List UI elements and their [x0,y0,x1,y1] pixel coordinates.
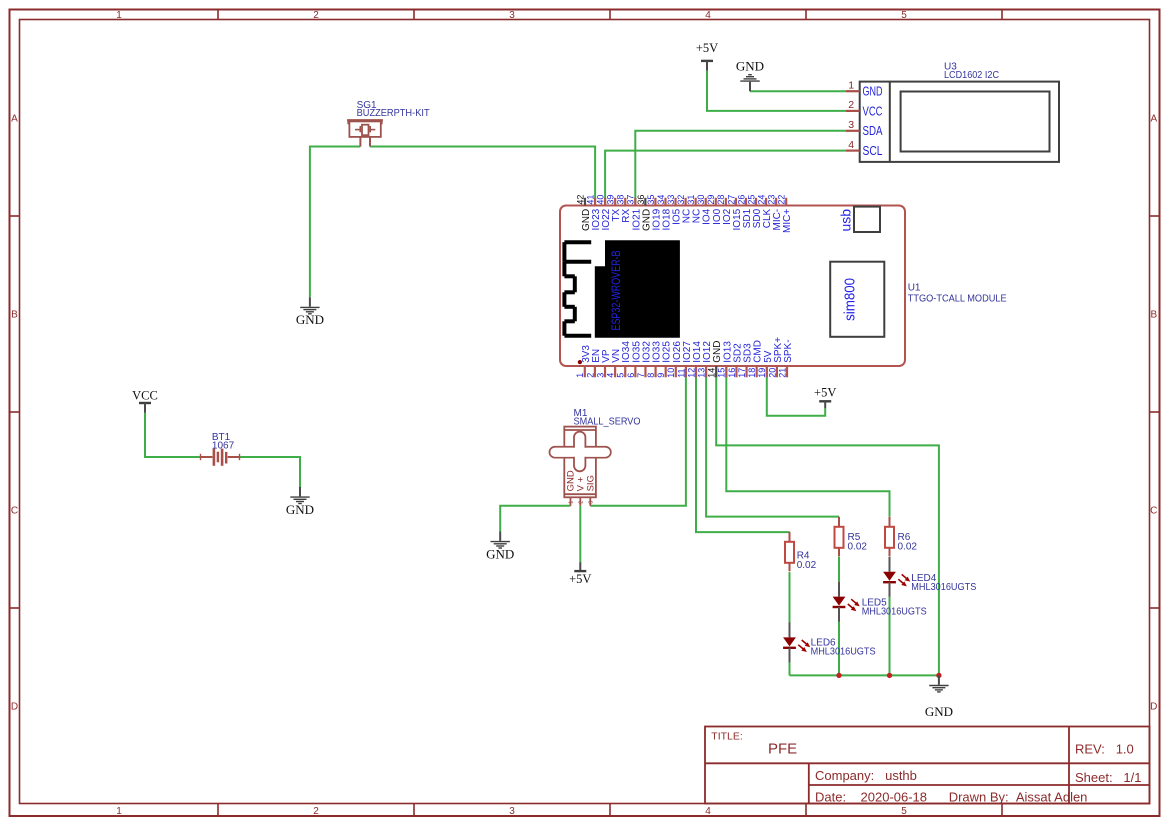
svg-text:REV: 1.0: REV: 1.0 [1075,742,1134,757]
wire LCD SCL pin4 to U1 pin40 IO22 [605,151,846,206]
buzzer SG1 [347,120,383,146]
battery BT1 [200,449,240,466]
svg-text:30: 30 [696,195,706,205]
U1 module outline [560,206,905,367]
svg-text:VCC: VCC [863,104,883,118]
svg-text:7: 7 [636,373,646,378]
U1 pin 1 3V3 [575,345,592,378]
wire U1 pin15 IO13 to resistor R6 [726,366,889,517]
svg-text:1: 1 [569,501,575,504]
servo M1 [550,427,611,506]
svg-text:VCC: VCC [132,389,158,403]
svg-text:D: D [1150,702,1157,713]
svg-text:13: 13 [697,368,707,378]
svg-text:+5V: +5V [696,41,718,55]
LED4 MHL3016UGTS [883,557,976,597]
svg-text:TITLE:: TITLE: [711,730,743,742]
svg-text:1: 1 [116,806,122,817]
svg-text:38: 38 [616,195,626,205]
label U1 TTGO-TCALL MODULE [908,283,1007,305]
U1 pin 26 SD1 [736,195,753,229]
wire U1 pin12 IO14 to resistor R4 [696,366,790,532]
label BT1 1067 [212,432,235,452]
svg-text:2: 2 [313,806,319,817]
svg-text:28: 28 [716,195,726,205]
resistor R4 0.02 [785,532,817,572]
U1 pin 31 NC [686,195,703,224]
svg-text:3: 3 [595,373,605,378]
U1 pin 8 IO33 [646,341,663,378]
ground GND (top, to LCD pin1) [736,59,764,92]
svg-text:10: 10 [666,368,676,378]
LCD pin 1 GND [846,79,883,98]
U1 pin 18 CMD [747,340,764,378]
junction dot LED4 bus [887,673,892,678]
wire LED6 to GND bus [789,662,791,675]
LCD pin 4 SCL [846,139,883,158]
U1 pin 23 MIC- [767,195,784,231]
svg-text:42: 42 [575,195,585,205]
svg-text:MHL3016UGTS: MHL3016UGTS [862,607,927,618]
U1 pin 12 IO14 [686,341,703,378]
U1 pin 28 IO2 [716,195,733,225]
U1 pin 40 IO22 [596,195,613,231]
svg-text:12: 12 [686,368,696,378]
U1 pin 15 IO13 [717,341,734,378]
svg-text:14: 14 [707,368,717,378]
U1 pin 38 RX [616,195,633,223]
wire LED4 to GND bus [889,597,891,676]
svg-text:26: 26 [736,195,746,205]
svg-text:5: 5 [901,806,907,817]
svg-text:SIG: SIG [585,475,596,491]
U1 ESP32-WROVER-B chip [595,240,680,338]
svg-text:3: 3 [509,806,515,817]
U1 pin 9 IO25 [656,341,673,378]
U1 pin 36 GND [636,195,653,231]
svg-text:11: 11 [676,368,686,377]
svg-text:GND: GND [863,85,883,99]
label SG1 BUZZERPTH-KIT [357,100,430,119]
svg-text:+5V: +5V [569,572,591,586]
svg-text:3: 3 [848,119,854,131]
svg-text:17: 17 [737,368,747,378]
svg-text:9: 9 [656,373,666,378]
U1 pin 21 SPK- [777,339,794,377]
power VCC (battery) [132,389,158,413]
svg-text:35: 35 [646,195,656,205]
svg-text:PFE: PFE [768,741,797,758]
title block frame [705,727,1150,804]
U1 pin 39 TX [606,195,623,222]
svg-text:18: 18 [747,368,757,378]
U1 usb connector [838,207,881,232]
svg-text:6: 6 [626,373,636,378]
svg-text:BUZZERPTH-KIT: BUZZERPTH-KIT [357,108,430,119]
wire servo V+ pin to +5V [579,506,581,562]
U1 pin 20 SPK+ [767,337,784,378]
svg-text:39: 39 [606,195,616,205]
label U3 LCD1602 I2C [944,61,999,81]
svg-text:MIC+: MIC+ [782,209,793,233]
U1 pin 42 GND [575,195,592,231]
svg-text:MHL3016UGTS: MHL3016UGTS [911,582,976,593]
svg-text:37: 37 [626,195,636,205]
resistor R5 0.02 [835,517,868,557]
wire buzzer left pin to GND [310,147,361,298]
U1 pin 27 IO15 [726,195,743,231]
svg-text:GND: GND [736,59,764,74]
ground GND (buzzer) [296,297,324,327]
svg-text:A: A [11,114,18,125]
U1 pin 37 IO21 [626,195,643,231]
svg-text:C: C [11,506,18,517]
wire U1 pin13 IO12 to resistor R5 [706,366,839,517]
svg-text:GND: GND [296,312,324,327]
wire servo GND pin to GND [500,506,570,532]
svg-text:2: 2 [848,99,854,111]
svg-text:32: 32 [676,195,686,205]
svg-text:0.02: 0.02 [848,541,868,552]
U1 pin 29 IO0 [706,195,723,225]
U1 pin 33 IO5 [666,195,683,225]
wire U1 pin11 IO27 to servo SIG [590,366,686,506]
svg-text:1: 1 [116,10,122,21]
svg-text:A: A [1150,114,1157,125]
svg-text:1: 1 [848,79,854,91]
power +5V (U1 pin19) [814,386,836,409]
svg-text:8: 8 [646,373,656,378]
svg-text:1: 1 [575,373,585,378]
svg-text:sim800: sim800 [842,278,859,321]
LCD module U3 body [860,82,1059,162]
svg-text:+5V: +5V [814,386,836,400]
ground GND (battery minus) [286,487,314,517]
wire U1 pin19 5V to +5V [767,366,825,416]
wire GND to LCD pin1 [750,90,846,92]
U1 pin 11 IO27 [676,341,693,378]
svg-text:0.02: 0.02 [797,560,817,571]
U1 pin 19 5V [757,350,774,378]
wire VCC to battery BT1 plus [145,413,200,457]
U1 pin 17 SD3 [737,343,754,378]
svg-text:GND: GND [925,704,953,719]
svg-text:2: 2 [578,501,584,504]
svg-text:23: 23 [767,195,777,205]
U1 pin 25 SD0 [746,195,763,229]
svg-text:33: 33 [666,195,676,205]
svg-text:15: 15 [717,368,727,378]
LED5 MHL3016UGTS [833,582,927,622]
svg-text:GND: GND [286,502,314,517]
svg-text:41: 41 [585,195,595,205]
svg-text:TTGO-TCALL MODULE: TTGO-TCALL MODULE [908,293,1007,304]
svg-text:2: 2 [585,373,595,378]
junction dot GND bus corner [936,673,941,678]
label M1 SMALL_SERVO [574,408,641,428]
svg-text:31: 31 [686,195,696,205]
svg-text:36: 36 [636,195,646,205]
svg-text:19: 19 [757,368,767,378]
U1 pin 7 IO32 [636,341,653,378]
U1 pin 13 IO12 [697,341,714,378]
U1 pin 4 VN [606,349,623,378]
svg-text:SCL: SCL [863,144,883,158]
LED6 MHL3016UGTS [783,622,876,662]
U1 pin 41 IO23 [585,195,602,231]
svg-text:25: 25 [746,195,756,205]
svg-text:usb: usb [838,209,854,232]
wire buzzer right pin to U1 pin41 IO23 [370,147,595,206]
wire U1 pin14 GND to bottom GND bus [716,366,939,675]
wire battery BT1 minus to GND [240,457,300,487]
svg-text:MHL3016UGTS: MHL3016UGTS [811,647,876,658]
U1 pin 34 IO18 [656,195,673,231]
svg-text:Sheet: 1/1: Sheet: 1/1 [1075,770,1142,785]
svg-text:20: 20 [767,368,777,378]
svg-text:D: D [11,702,18,713]
wire LED5 to GND bus [838,621,840,675]
wire LCD SDA pin3 to U1 pin37 IO21 [635,131,846,206]
wire +5V to LCD VCC pin2 [707,71,846,111]
wire R5 to LED5 [838,557,840,582]
U1 pin 6 IO35 [626,341,643,378]
svg-text:16: 16 [727,368,737,378]
U1 pin 10 IO26 [666,341,683,378]
svg-text:3: 3 [588,501,594,504]
U1 pin 14 GND [707,341,724,378]
svg-text:ESP32-WROVER-B: ESP32-WROVER-B [609,251,623,331]
svg-text:24: 24 [756,195,766,205]
svg-text:5: 5 [616,373,626,378]
wire R4 to LED6 [789,572,791,623]
U1 pin 22 MIC+ [777,195,794,233]
title block text [711,730,1141,804]
svg-text:GND: GND [486,547,514,562]
U1 pin 24 CLK [756,195,773,229]
svg-text:27: 27 [726,195,736,205]
resistor R6 0.02 [885,517,917,557]
svg-text:LCD1602 I2C: LCD1602 I2C [944,70,999,81]
svg-text:0.02: 0.02 [898,541,918,552]
U1 pin 3 VP [595,349,612,378]
svg-text:5: 5 [901,10,907,21]
power +5V (top, to LCD VCC) [696,41,718,71]
junction dot LED5 bus [836,673,841,678]
U1 pin 2 EN [585,349,602,378]
svg-text:U1: U1 [908,283,921,294]
U1 pin1 marker dot [578,360,582,364]
svg-text:Company: usthb: Company: usthb [815,768,917,783]
svg-text:B: B [1150,310,1157,321]
svg-text:21: 21 [777,368,787,378]
svg-text:B: B [11,310,18,321]
U1 pin 32 NC [676,195,693,224]
U1 ESP32 antenna meander [564,242,591,336]
svg-text:4: 4 [705,806,711,817]
ground GND (LED bus bottom right) [925,675,953,719]
svg-text:2: 2 [313,10,319,21]
svg-text:4: 4 [705,10,711,21]
U1 pin 30 IO4 [696,195,713,225]
svg-text:3: 3 [509,10,515,21]
svg-text:SDA: SDA [863,124,884,138]
U1 sim800 chip [830,262,884,337]
svg-text:29: 29 [706,195,716,205]
LCD pin 3 SDA [846,119,883,138]
svg-text:34: 34 [656,195,666,205]
ground GND (servo) [486,532,514,562]
LCD pin 2 VCC [846,99,883,118]
U1 pin 16 SD2 [727,343,744,378]
svg-text:Date: 2020-06-18 Drawn: Date: 2020-06-18 Drawn By: Aissat Adlen [815,790,1087,805]
U1 pin 35 IO19 [646,195,663,231]
svg-text:40: 40 [596,195,606,205]
svg-text:C: C [1150,506,1157,517]
power +5V (servo V+) [569,562,591,586]
svg-text:4: 4 [606,373,616,378]
svg-text:22: 22 [777,195,787,205]
wire GND bus under LEDs [790,674,939,676]
svg-text:SPK-: SPK- [783,339,794,362]
U1 pin 5 IO34 [616,341,633,378]
svg-text:4: 4 [848,139,854,151]
